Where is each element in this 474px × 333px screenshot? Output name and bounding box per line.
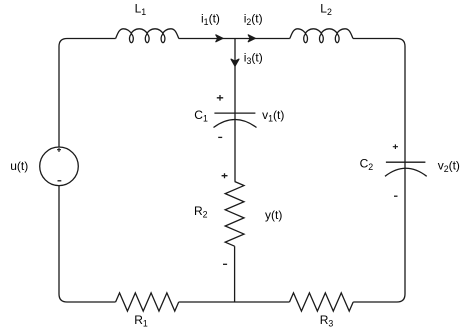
resistor R2 xyxy=(225,182,244,247)
arrowhead i1 xyxy=(216,35,223,42)
svg-text:L2: L2 xyxy=(320,2,332,18)
svg-text:C1: C1 xyxy=(194,108,208,124)
wire xyxy=(179,301,290,303)
svg-text:u(t): u(t) xyxy=(10,159,28,173)
minus R2 xyxy=(223,263,227,265)
arrowhead i2 xyxy=(248,35,255,42)
inductor L2 xyxy=(290,29,353,43)
plus R2 xyxy=(222,173,228,178)
svg-text:L1: L1 xyxy=(135,2,147,18)
svg-text:i3(t): i3(t) xyxy=(244,50,263,66)
resistor R1 xyxy=(116,293,179,311)
wire xyxy=(59,186,116,302)
svg-text:R2: R2 xyxy=(194,204,208,220)
wire xyxy=(234,39,236,182)
capacitor C1 xyxy=(214,113,257,127)
inductor L1 xyxy=(116,29,179,43)
svg-text:v2(t): v2(t) xyxy=(438,159,460,175)
svg-text:v1(t): v1(t) xyxy=(262,108,284,124)
plus C1 xyxy=(217,95,223,101)
plus source xyxy=(57,148,61,152)
svg-text:y(t): y(t) xyxy=(265,208,282,222)
minus C1 xyxy=(218,136,222,138)
minus source xyxy=(58,180,62,182)
capacitor C2 xyxy=(385,162,427,176)
wire xyxy=(179,38,290,40)
minus C2 xyxy=(394,195,398,197)
wire xyxy=(59,39,116,148)
resistor R3 xyxy=(290,293,354,311)
plus C2 xyxy=(393,144,398,149)
wire xyxy=(353,39,405,303)
svg-text:i2(t): i2(t) xyxy=(244,12,263,28)
svg-text:C2: C2 xyxy=(360,157,374,173)
svg-text:i1(t): i1(t) xyxy=(201,12,220,28)
voltage source U1 xyxy=(40,147,79,186)
svg-text:R1: R1 xyxy=(134,313,148,329)
wire xyxy=(234,246,236,302)
arrowhead i3 xyxy=(231,59,239,66)
svg-text:R3: R3 xyxy=(320,313,334,329)
